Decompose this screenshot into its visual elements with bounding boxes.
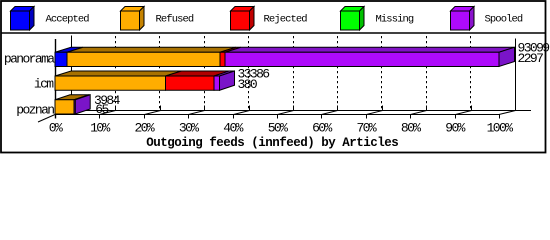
top face spooled <box>214 71 235 76</box>
dashed gridline 50% <box>293 36 295 110</box>
front spooled <box>225 52 499 66</box>
svg-text:10%: 10% <box>90 120 110 135</box>
top face spooled <box>74 95 90 100</box>
dashed gridline 60% <box>337 36 339 110</box>
svg-text:60%: 60% <box>312 120 332 135</box>
svg-text:20%: 20% <box>134 120 154 135</box>
back y-axis <box>71 36 73 111</box>
bar poznan <box>55 95 90 114</box>
top face refused <box>55 71 182 76</box>
front refused <box>55 76 166 90</box>
top face rejected <box>166 71 231 76</box>
outer border frame <box>1 1 546 153</box>
svg-text:65: 65 <box>95 102 108 117</box>
front spooled <box>74 100 75 114</box>
front refused <box>67 52 220 66</box>
svg-text:30%: 30% <box>179 120 199 135</box>
front accepted <box>55 52 67 66</box>
dashed gridline 30% <box>204 36 206 110</box>
svg-text:40%: 40% <box>223 120 243 135</box>
legend separator line <box>1 32 545 34</box>
legend cube Missing <box>341 7 365 31</box>
front rejected <box>166 76 215 90</box>
svg-text:Outgoing feeds (innfeed) by Ar: Outgoing feeds (innfeed) by Articles <box>146 136 398 150</box>
right back axis (100%) <box>515 39 517 111</box>
back baseline with right overhang <box>72 110 532 112</box>
svg-text:Rejected: Rejected <box>264 13 308 25</box>
svg-text:Refused: Refused <box>156 13 194 25</box>
bar panorama <box>55 47 515 66</box>
dashed gridline 10% <box>115 36 117 110</box>
svg-text:panorama: panorama <box>4 51 55 66</box>
dashed gridline 20% <box>159 36 161 110</box>
svg-text:90%: 90% <box>445 120 465 135</box>
dashed gridline 70% <box>381 36 383 110</box>
origin overhang diagonal <box>38 115 55 123</box>
side face spooled <box>499 47 515 66</box>
top face spooled <box>225 47 515 52</box>
front rejected <box>220 52 225 66</box>
svg-text:Spooled: Spooled <box>485 13 523 25</box>
top face refused <box>67 47 236 52</box>
svg-text:2297: 2297 <box>518 51 544 66</box>
svg-text:380: 380 <box>238 77 257 92</box>
front baseline <box>55 114 499 116</box>
side face spooled <box>220 71 235 90</box>
svg-text:100%: 100% <box>487 120 514 135</box>
top face rejected <box>220 47 241 52</box>
svg-text:50%: 50% <box>268 120 288 135</box>
dashed gridline 40% <box>248 36 250 110</box>
baseline 3D corner diagonal <box>499 111 516 115</box>
front refused <box>55 100 74 114</box>
svg-text:80%: 80% <box>401 120 421 135</box>
axis ticks <box>56 106 516 119</box>
front y-axis <box>55 39 57 119</box>
legend cube Accepted <box>11 7 35 31</box>
legend cube Rejected <box>231 7 255 31</box>
bar icm <box>55 71 235 90</box>
svg-text:Accepted: Accepted <box>46 13 90 25</box>
svg-text:0%: 0% <box>49 120 63 135</box>
side face spooled <box>75 95 90 114</box>
front spooled <box>214 76 220 90</box>
legend cube Refused <box>121 7 145 31</box>
svg-text:70%: 70% <box>356 120 376 135</box>
svg-text:poznan: poznan <box>16 102 54 117</box>
svg-text:icm: icm <box>34 77 54 92</box>
top face refused <box>55 95 89 100</box>
top face accepted <box>55 47 83 52</box>
legend cube Spooled <box>451 7 475 31</box>
x-axis percent labels <box>49 120 513 135</box>
dashed gridline 80% <box>426 36 428 110</box>
dashed gridline 90% <box>470 36 472 110</box>
svg-text:Missing: Missing <box>376 13 414 25</box>
